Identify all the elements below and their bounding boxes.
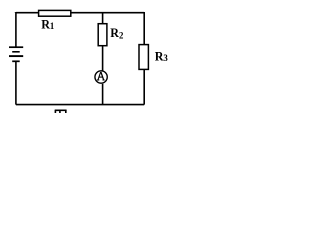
battery cell plate short 2 [12, 60, 20, 62]
wire middle branch lower (ammeter to bottom wire) [102, 84, 104, 105]
partial component box at bottom edge (cut off) [55, 110, 67, 113]
wire top-right segment (R1 to top-right corner) [71, 12, 144, 14]
resistor R1 box [39, 10, 71, 16]
wire right branch lower (R3 to bottom corner) [143, 69, 145, 104]
label R1 [41, 17, 55, 31]
wire top-left segment [15, 12, 38, 14]
resistor R2 box [98, 24, 107, 46]
label R2 [110, 26, 124, 41]
wire right branch upper (top corner to R3) [143, 12, 145, 45]
resistor R3 box [139, 45, 148, 70]
ammeter letter A [97, 72, 105, 80]
battery cell plate long 2 [9, 55, 23, 57]
wire middle branch upper (junction to R2) [102, 13, 104, 24]
label R3 [155, 49, 169, 63]
battery cell plate short 1 [12, 51, 20, 53]
svg-text:R3: R3 [155, 49, 169, 63]
wire left branch lower (battery to bottom corner) [15, 61, 17, 105]
wire left branch upper (top corner to battery) [15, 12, 17, 47]
wire middle branch mid (R2 to ammeter) [102, 46, 104, 72]
svg-text:R2: R2 [110, 26, 124, 41]
wire bottom [16, 104, 144, 106]
ammeter A1 circle [95, 71, 107, 83]
svg-text:R1: R1 [41, 17, 55, 31]
battery cell plate long 1 [9, 46, 23, 48]
